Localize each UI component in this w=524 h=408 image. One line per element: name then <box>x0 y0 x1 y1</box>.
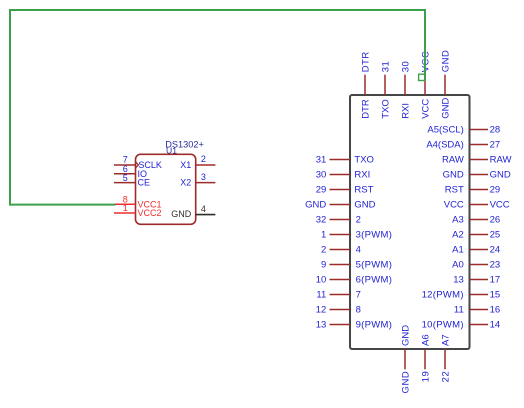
svg-text:A2: A2 <box>452 230 464 241</box>
svg-text:1: 1 <box>123 203 128 213</box>
svg-text:VCC: VCC <box>490 200 510 211</box>
svg-text:28: 28 <box>490 125 501 136</box>
svg-text:GND: GND <box>443 170 464 181</box>
svg-text:29: 29 <box>490 185 501 196</box>
svg-text:RST: RST <box>354 185 373 196</box>
svg-text:2: 2 <box>201 154 206 164</box>
svg-text:VCC: VCC <box>444 200 464 211</box>
svg-text:31: 31 <box>381 61 392 73</box>
svg-text:RST: RST <box>445 185 464 196</box>
svg-text:10(PWM): 10(PWM) <box>422 320 464 331</box>
svg-text:5(PWM): 5(PWM) <box>356 260 393 271</box>
svg-text:4: 4 <box>356 245 361 256</box>
svg-text:X2: X2 <box>180 178 191 188</box>
svg-text:12(PWM): 12(PWM) <box>422 290 464 301</box>
svg-text:11: 11 <box>316 290 326 301</box>
svg-text:GND: GND <box>490 170 511 181</box>
svg-text:4: 4 <box>201 204 206 214</box>
svg-text:9(PWM): 9(PWM) <box>356 320 393 331</box>
svg-text:5: 5 <box>123 173 128 183</box>
svg-text:A7: A7 <box>441 334 452 346</box>
svg-text:32: 32 <box>316 215 327 226</box>
svg-text:15: 15 <box>490 290 501 301</box>
svg-text:RAW: RAW <box>442 155 464 166</box>
svg-text:A5(SCL): A5(SCL) <box>427 125 463 136</box>
svg-text:14: 14 <box>490 320 501 331</box>
svg-text:A4(SDA): A4(SDA) <box>426 140 463 151</box>
svg-text:A6: A6 <box>421 334 432 346</box>
svg-text:30: 30 <box>401 61 412 73</box>
svg-text:3(PWM): 3(PWM) <box>356 230 393 241</box>
svg-text:2: 2 <box>356 215 361 226</box>
svg-text:30: 30 <box>316 170 327 181</box>
svg-text:VCC: VCC <box>421 99 432 119</box>
svg-text:GND: GND <box>354 200 375 211</box>
svg-text:27: 27 <box>490 140 501 151</box>
svg-text:13: 13 <box>453 275 464 286</box>
svg-text:GND: GND <box>441 50 452 73</box>
svg-text:A0: A0 <box>452 260 464 271</box>
svg-text:GND: GND <box>401 325 412 346</box>
svg-text:25: 25 <box>490 230 501 241</box>
svg-text:DTR: DTR <box>361 99 372 119</box>
svg-text:TXO: TXO <box>381 99 392 119</box>
svg-text:RAW: RAW <box>490 155 512 166</box>
svg-text:26: 26 <box>490 215 501 226</box>
svg-text:3: 3 <box>201 172 206 182</box>
svg-text:10: 10 <box>316 275 327 286</box>
svg-text:12: 12 <box>316 305 327 316</box>
svg-text:7: 7 <box>356 290 361 301</box>
svg-text:1: 1 <box>321 230 326 241</box>
svg-text:RXI: RXI <box>354 170 370 181</box>
svg-text:6(PWM): 6(PWM) <box>356 275 393 286</box>
svg-text:29: 29 <box>316 185 327 196</box>
svg-text:2: 2 <box>321 245 326 256</box>
svg-text:31: 31 <box>316 155 327 166</box>
svg-text:A3: A3 <box>452 215 464 226</box>
svg-text:VCC: VCC <box>421 51 432 73</box>
svg-text:22: 22 <box>441 371 452 383</box>
svg-text:GND: GND <box>305 200 326 211</box>
svg-text:17: 17 <box>490 275 501 286</box>
svg-text:19: 19 <box>421 371 432 383</box>
svg-text:TXO: TXO <box>354 155 374 166</box>
svg-text:DTR: DTR <box>361 51 372 72</box>
svg-text:RXI: RXI <box>401 103 412 119</box>
svg-text:13: 13 <box>316 320 327 331</box>
svg-text:8: 8 <box>356 305 361 316</box>
svg-text:X1: X1 <box>180 160 191 170</box>
svg-text:GND: GND <box>441 98 452 119</box>
svg-text:CE: CE <box>138 178 151 188</box>
svg-text:23: 23 <box>490 260 501 271</box>
svg-text:VCC2: VCC2 <box>138 208 162 218</box>
svg-text:11: 11 <box>454 305 464 316</box>
svg-text:24: 24 <box>490 245 501 256</box>
svg-text:9: 9 <box>321 260 326 271</box>
svg-text:GND: GND <box>401 371 412 394</box>
svg-text:A1: A1 <box>452 245 464 256</box>
svg-text:U1: U1 <box>166 145 177 155</box>
svg-text:16: 16 <box>490 305 501 316</box>
svg-text:GND: GND <box>171 209 192 219</box>
